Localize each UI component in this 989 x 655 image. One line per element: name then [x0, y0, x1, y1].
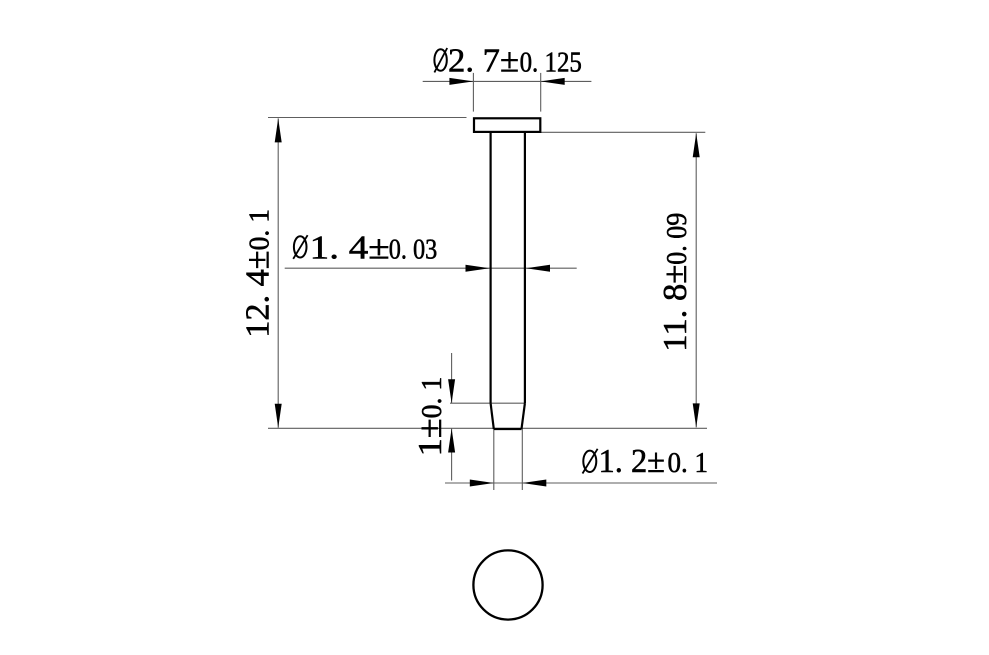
svg-text:1±: 1± [412, 418, 449, 456]
end view circle [473, 550, 542, 619]
pin head rectangle [474, 118, 540, 132]
svg-text:1. 2±: 1. 2± [599, 443, 666, 480]
svg-text:0. 1: 0. 1 [245, 209, 276, 250]
svg-text:12. 4±: 12. 4± [240, 250, 277, 337]
dimension line 1 upper [451, 353, 453, 403]
dimension text 12.4 vertical [240, 209, 277, 338]
arrow 12.4 bottom [275, 404, 282, 428]
extension line 12.4 top [268, 117, 467, 119]
svg-text:2. 7±: 2. 7± [448, 42, 519, 79]
dimension line dia1.4 [285, 267, 577, 269]
svg-text:0. 1: 0. 1 [668, 448, 709, 479]
arrow 1 lower pointing up [448, 429, 455, 453]
arrow dia1.2 left [470, 480, 494, 487]
arrow dia1.4 right [526, 265, 550, 272]
arrow dia1.4 left [466, 265, 490, 272]
pin tip bottom edge [494, 428, 522, 430]
svg-text:0. 03: 0. 03 [389, 235, 438, 266]
svg-text:0. 09: 0. 09 [662, 213, 693, 265]
dimension text 1 vertical [412, 377, 449, 457]
svg-text:0. 1: 0. 1 [417, 377, 448, 419]
arrow dia2.7 right [541, 78, 565, 85]
arrow 11.8 bottom [693, 403, 700, 427]
taper start line [450, 402, 525, 404]
extension line bottom shared [268, 427, 707, 429]
dimension line dia1.2 [445, 482, 717, 484]
dimension text 11.8 vertical [657, 213, 694, 352]
arrow 11.8 top [693, 133, 700, 157]
extension line 11.8 top [541, 131, 706, 133]
arrow dia2.7 left [449, 78, 473, 85]
dimension line 11.8 [695, 133, 697, 427]
arrow dia1.2 right [522, 480, 546, 487]
svg-text:1. 4±: 1. 4± [310, 230, 390, 267]
diameter symbol of dia2.7 text [434, 48, 447, 72]
svg-text:11. 8±: 11. 8± [657, 265, 694, 352]
diameter symbol of dia1.2 text [583, 449, 598, 474]
dimension line dia2.7 [423, 80, 592, 82]
extension line dia2.7 left [472, 73, 474, 112]
pin tip taper left [491, 403, 494, 429]
pin tip taper right [522, 403, 525, 429]
arrow 12.4 top [275, 118, 282, 142]
extension line dia2.7 right [540, 73, 542, 112]
dimension line 1 lower [451, 429, 453, 481]
pin shaft left edge [490, 132, 492, 403]
arrow 1 upper pointing down [448, 379, 455, 403]
dimension line 12.4 [277, 118, 279, 427]
extension line dia1.2 left [493, 429, 495, 490]
pin shaft right edge [524, 132, 526, 403]
diameter symbol of dia1.4 text [293, 235, 307, 259]
extension line dia1.2 right [521, 429, 523, 490]
svg-text:0. 125: 0. 125 [520, 47, 582, 78]
